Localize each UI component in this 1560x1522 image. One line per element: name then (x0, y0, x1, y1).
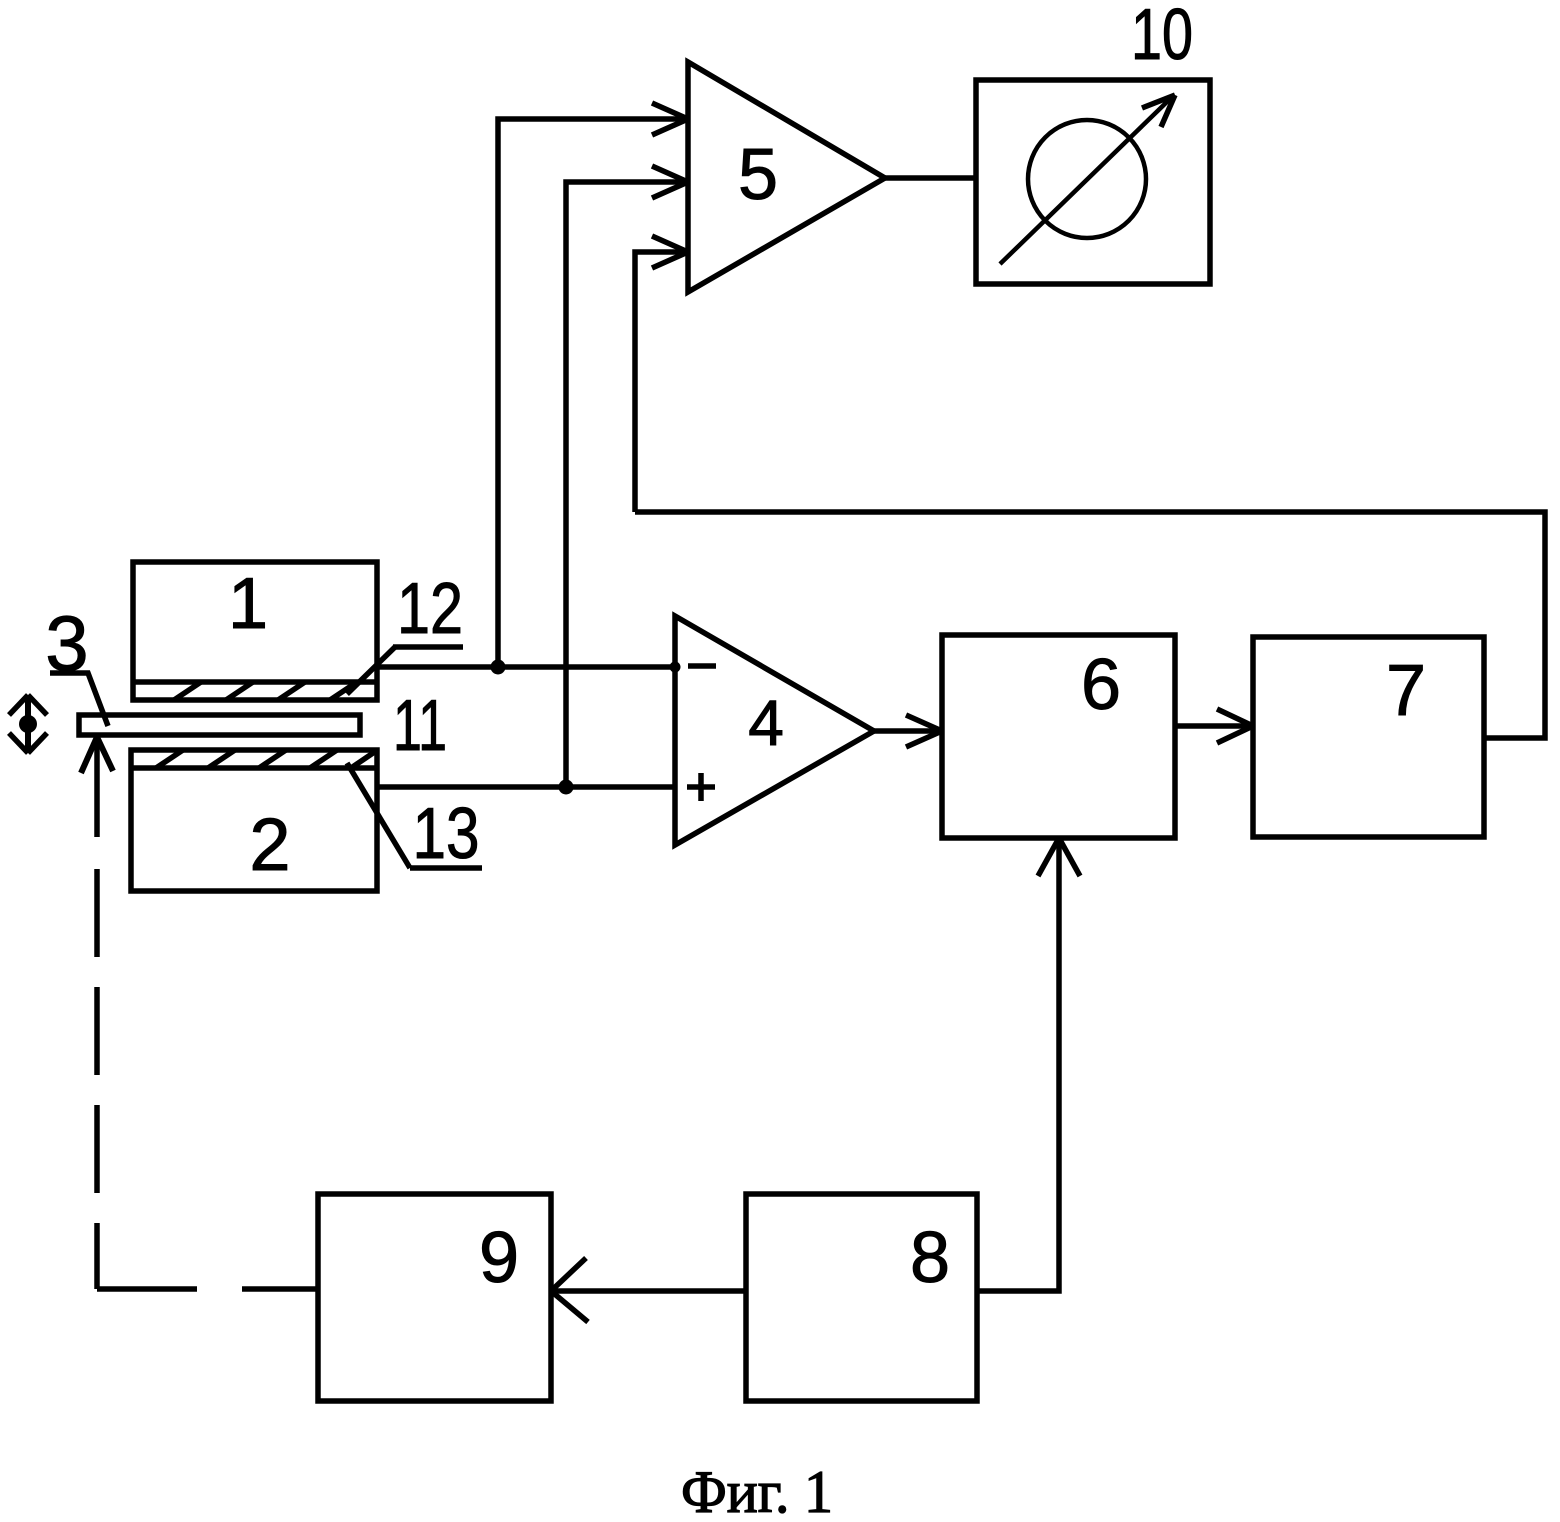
svg-text:5: 5 (738, 135, 778, 215)
svg-text:Фиг. 1: Фиг. 1 (681, 1459, 833, 1522)
svg-text:10: 10 (1131, 0, 1193, 75)
svg-text:4: 4 (748, 687, 784, 759)
svg-text:12: 12 (397, 569, 463, 649)
svg-text:3: 3 (45, 599, 88, 687)
svg-text:1: 1 (228, 564, 268, 644)
svg-text:6: 6 (1081, 645, 1121, 725)
svg-text:8: 8 (910, 1218, 950, 1298)
svg-text:2: 2 (249, 803, 290, 886)
svg-text:11: 11 (393, 686, 447, 766)
svg-text:7: 7 (1386, 651, 1426, 731)
svg-text:13: 13 (413, 794, 480, 874)
svg-text:9: 9 (479, 1218, 519, 1298)
